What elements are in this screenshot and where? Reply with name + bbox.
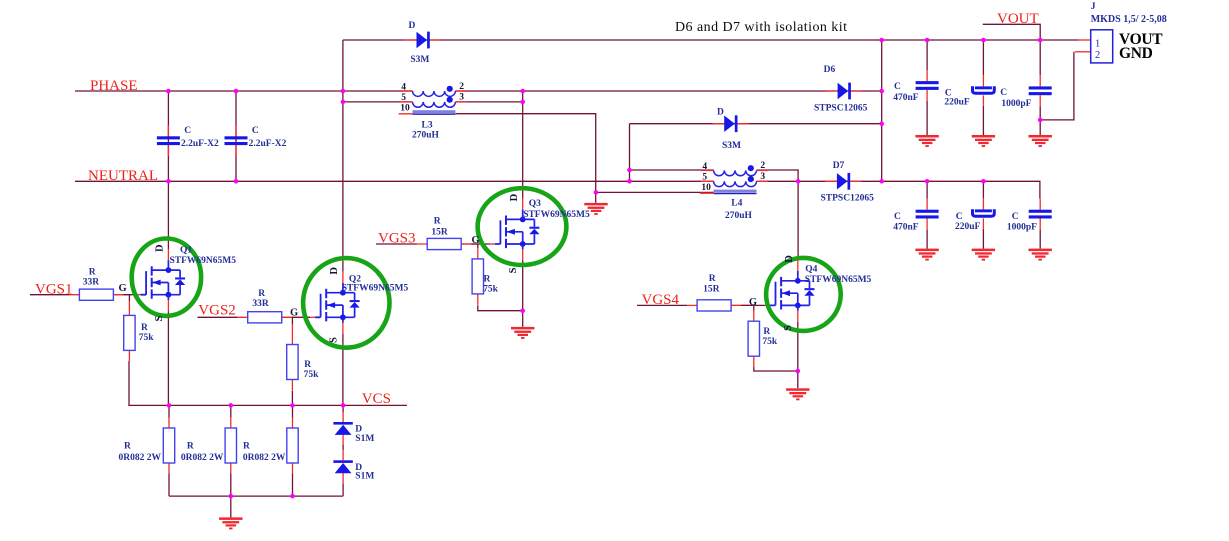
wire bottom ground stem [230,496,232,517]
svg-text:2.2uF-X2: 2.2uF-X2 [249,139,287,149]
annotation circle around Q2 [303,258,389,348]
wire X2 cap2 column [235,91,237,181]
svg-text:R: R [709,274,716,284]
junction bottom rail / ground [229,494,234,499]
wire VGS4 net stub [637,304,687,306]
wire Rs1 bottom lead [168,473,170,496]
wire Q4 gate pin [765,304,770,306]
svg-text:STFW69N65M5: STFW69N65M5 [805,275,872,285]
resistor R 0R082 2W #3 [243,417,298,474]
svg-text:G: G [290,308,298,319]
svg-text:J: J [1091,2,1096,12]
svg-text:STFW69N65M5: STFW69N65M5 [523,210,590,220]
junction VCS / Rs2 [229,403,234,408]
resistor R 33R (Q1 gate) [69,267,123,300]
wire L3 pin10 row to ground node [456,114,596,203]
svg-text:R: R [434,216,441,226]
svg-text:VGS2: VGS2 [198,303,236,319]
svg-text:Q4: Q4 [805,265,817,275]
wire Q4 source to ground node [797,322,799,389]
svg-text:75k: 75k [139,333,155,343]
wire VGS3 net stub [376,243,417,245]
svg-text:S: S [154,316,165,322]
svg-text:VGS4: VGS4 [642,292,680,308]
svg-text:GND: GND [1119,45,1153,62]
junction VCS / R75k2 [290,403,295,408]
svg-text:C: C [252,126,259,136]
wire VOUT top bus [343,39,1079,41]
svg-text:D: D [509,193,520,201]
wire R75k4 bottom link [754,367,798,371]
svg-text:G: G [119,283,127,294]
svg-text:33R: 33R [83,277,100,287]
svg-text:C: C [894,212,901,222]
ground earth Q4 source [786,388,809,400]
capacitor C 2.2uF-X2 #2 [225,125,287,156]
wire R75k2 top link a [291,317,293,324]
ground earth C220uF-1 [972,135,995,147]
junction D6 out / VOUT join [879,89,884,94]
wire Q2 drain vertical [342,91,344,272]
wire VOUT join vertical [881,40,883,181]
svg-text:2: 2 [1095,50,1100,61]
svg-text:C: C [184,126,191,136]
wire Q1 source to VCS [167,311,169,405]
net label VGS1 [35,281,73,297]
wire R75k4 top link [753,305,755,311]
svg-text:470nF: 470nF [893,223,919,233]
diode D7 STPSC12065 [821,161,875,203]
resistor R 15R (Q4 gate) [687,274,741,311]
svg-text:S: S [508,267,519,273]
inductor L4 270uH [700,161,768,221]
diode D6 STPSC12065 [814,65,868,113]
wire Q1 gate pin [136,294,141,296]
svg-text:270uH: 270uH [412,131,440,141]
wire R75k3 top link [477,244,479,248]
resistor R 15R (Q3 gate) [417,216,471,249]
svg-text:S: S [783,325,794,331]
wire L4 pin2 to Q4 drain [757,170,799,260]
svg-text:R: R [258,289,265,299]
wire C1000pF-2 leads [1039,230,1041,249]
junction VCS / Q1 source [167,403,172,408]
resistor R 0R082 2W #2 [181,417,237,474]
net label VGS2 [198,303,236,319]
wire PHASE bus [75,90,882,92]
svg-text:0R082 2W: 0R082 2W [119,453,162,463]
svg-text:220uF: 220uF [944,98,970,108]
wire Rs3 bottom lead [292,473,294,496]
svg-text:75k: 75k [483,284,499,294]
wire Rs1 top lead [168,405,170,417]
svg-text:C: C [894,82,901,92]
wire L4 pin4 feed [630,169,714,171]
svg-text:D6: D6 [824,65,836,75]
svg-text:C: C [1012,212,1019,222]
junction rail / C470nF-2 [925,179,930,184]
svg-text:S: S [328,337,339,343]
junction bottom rail / Rs3 [290,494,295,499]
svg-text:VCS: VCS [362,391,391,407]
capacitor C 1000pF #1 [1000,75,1051,109]
capacitor C 470nF #2 [893,199,938,233]
diode D S1M lower [333,450,374,483]
annotation circle around Q3 [478,188,567,265]
svg-text:STPSC12065: STPSC12065 [821,194,875,204]
diode D S1M upper [333,412,374,445]
svg-text:470nF: 470nF [893,93,919,103]
net label VGS4 [642,292,680,308]
wire R2 to Q2 gate b [292,316,310,318]
annotation circle around Q1 [132,239,201,316]
svg-text:S3M: S3M [722,141,741,151]
ground earth C470nF-2 [915,249,938,261]
wire R4 to Q4 gate b [741,304,765,306]
svg-text:STFW69N65M5: STFW69N65M5 [170,256,237,266]
capacitor C 470nF #1 [893,70,938,103]
svg-text:0R082 2W: 0R082 2W [181,453,224,463]
title note [675,20,847,35]
junction gnd net / C1000pF-1 [1038,118,1043,123]
junction NEUTRAL / S3M2 branch [627,179,632,184]
wire R3 to Q3 gate a [461,243,479,245]
wire R1 to Q1 gate b [123,294,135,296]
svg-text:L4: L4 [731,199,742,209]
transistor Q4 STFW69N65M5 [749,255,872,331]
junction VCS / Q2 source S1M [341,403,346,408]
net label VOUT [997,11,1039,27]
wire R75k2 bottom to VCS [291,391,293,406]
svg-text:0R082 2W: 0R082 2W [243,453,286,463]
net label VCS [362,391,391,407]
wire R75k3 bottom link [478,305,523,310]
wire VGS2 net stub [198,316,238,318]
junction S3M2 / VOUT join [879,121,884,126]
svg-text:VGS3: VGS3 [378,231,416,247]
wire C470nF-2 leads [926,181,928,248]
svg-text:G: G [472,235,480,246]
wire VCS rail [129,361,407,406]
svg-text:D: D [784,255,795,263]
svg-text:1000pF: 1000pF [1007,223,1037,233]
wire Q3 gate pin [490,243,495,245]
capacitor C 1000pF #2 [1007,199,1052,233]
junction PHASE / X2 cap1 [166,89,171,94]
junction top bus / C1000pF-1 VOUT label [1038,38,1043,43]
svg-text:R: R [124,442,131,452]
wire R75k1 top link b [128,301,130,305]
wire S3M2 row [630,123,882,125]
svg-text:D7: D7 [833,161,845,171]
svg-text:75k: 75k [304,370,320,380]
ground earth sense rail [219,517,242,529]
junction rail / C220uF-2 [981,179,986,184]
svg-text:R: R [763,327,770,337]
wire S1M stack bottom lead [342,483,344,496]
svg-text:C: C [1000,88,1007,98]
svg-text:Q3: Q3 [529,199,541,209]
wire Q3 drain vertical [522,91,524,198]
resistor R 75k (Q3) [472,248,499,305]
junction top bus / VOUT join [879,38,884,43]
wire Q1 drain vertical [167,91,169,249]
wire connector pin2 to ground net [1040,52,1074,120]
svg-text:NEUTRAL: NEUTRAL [88,168,158,184]
junction Q4 source ground node [796,369,801,374]
transistor Q1 STFW69N65M5 [119,244,237,322]
wire S1M stack top lead [342,405,344,412]
wire NEUTRAL bus and D7 output rail [75,181,1040,198]
junction aux winding ground node [594,190,599,195]
annotation circle around Q4 [766,258,841,331]
ground earth C220uF-2 [972,249,995,261]
svg-text:15R: 15R [703,285,720,295]
junction NEUTRAL / X2 cap2 [234,179,239,184]
svg-text:1000pF: 1000pF [1001,99,1031,109]
svg-text:D: D [155,244,166,252]
wire C1000pF-1 leads [1039,40,1041,135]
wire sense bottom rail [169,495,343,497]
junction NEUTRAL / X2 cap1 [166,179,171,184]
resistor R 75k (Q2) [287,334,319,391]
junction row2 / Q3 drain [520,100,525,105]
svg-text:VGS1: VGS1 [35,281,73,297]
svg-text:270uH: 270uH [725,211,753,221]
net label PHASE [90,78,138,94]
wire top S3M branch vertical [342,40,344,91]
wire S1M stack middle link [342,445,344,450]
junction top bus / C220uF-1 [981,38,986,43]
svg-text:D: D [717,107,724,117]
svg-text:Q1: Q1 [180,246,192,256]
svg-text:R: R [243,442,250,452]
wire Q2 gate pin [310,316,315,318]
junction D7 line / Q4 drain [796,179,801,184]
wire Rs2 top lead [230,405,232,417]
transistor Q2 STFW69N65M5 [290,267,408,343]
svg-text:220uF: 220uF [955,222,981,232]
wire S3M2 branch vertical [629,124,631,182]
svg-text:75k: 75k [762,337,778,347]
connector J MKDS 1,5/ 2-5,08 [1091,2,1167,63]
wire Rs3 top lead [292,405,294,417]
wire R3 to Q3 gate b [471,243,490,245]
svg-text:VOUT: VOUT [997,11,1039,27]
junction L3 out row1 / Q3 drain [520,89,525,94]
svg-text:PHASE: PHASE [90,78,138,94]
resistor R 0R082 2W #1 [119,417,175,474]
junction PHASE / Q2 drain branch [341,89,346,94]
ground earth Q3 source [511,327,534,339]
svg-text:L3: L3 [422,121,433,131]
wire R75k1 top link a [128,295,130,301]
svg-text:R: R [187,442,194,452]
svg-text:G: G [749,297,757,308]
capacitor C 220uF #2 [955,198,994,232]
capacitor C 2.2uF-X2 #1 [157,125,219,156]
svg-text:2.2uF-X2: 2.2uF-X2 [181,139,219,149]
capacitor C 220uF #1 [944,75,994,108]
wire R4 to Q4 gate a [731,304,755,306]
wire connector pin2 lead [1075,51,1091,53]
svg-text:D6 and D7 with isolation kit: D6 and D7 with isolation kit [675,20,847,35]
junction Q3 source ground node [520,308,525,313]
wire R2 to Q2 gate a [282,316,294,318]
wire C220uF-2 leads [982,181,984,248]
net label VGS3 [378,231,416,247]
junction L4 pin4 tap [627,168,632,173]
wire VOUT net label stub [983,24,1040,40]
svg-text:MKDS 1,5/ 2-5,08: MKDS 1,5/ 2-5,08 [1091,14,1167,25]
wire connector pin1 lead [1079,39,1091,41]
diode D S3M second [713,107,749,151]
svg-text:STFW69N65M5: STFW69N65M5 [342,284,409,294]
ground earth C1000pF-1 [1029,135,1052,147]
wire C220uF-1 leads [982,40,984,135]
wire Rs2 bottom lead [230,473,232,496]
wire aux ground link to L4 pin10 [596,191,714,193]
svg-text:15R: 15R [431,228,448,238]
wire Q2 source to VCS [342,334,344,406]
wire R1 to Q1 gate a [113,294,131,296]
junction rail / VOUT join [879,179,884,184]
svg-text:R: R [141,323,148,333]
resistor R 33R (Q2 gate) [238,289,292,323]
junction PHASE / X2 cap2 [234,89,239,94]
junction row2 / Q2 branch [341,100,346,105]
ground earth C1000pF-2 [1029,249,1052,261]
wire R75k2 top link b [291,324,293,334]
wire L3 winding 5-3 row [343,101,523,103]
inductor L3 270uH [399,82,467,141]
svg-text:C: C [956,212,963,222]
junction top bus / C470nF-1 [925,38,930,43]
wire Q3 source to ground node [522,260,524,327]
svg-text:STPSC12065: STPSC12065 [814,103,868,113]
wire C470nF-1 leads [926,40,928,135]
svg-text:R: R [304,360,311,370]
net label NEUTRAL [88,168,158,184]
transistor Q3 STFW69N65M5 [472,193,590,273]
resistor R 75k (Q1) [124,304,155,361]
svg-text:R: R [89,267,96,277]
wire VGS1 net stub [30,294,70,296]
resistor R 75k (Q4) [748,310,778,367]
svg-text:R: R [484,275,491,285]
svg-text:D: D [409,21,416,31]
svg-text:D: D [329,267,340,275]
svg-text:S3M: S3M [410,55,429,65]
svg-text:33R: 33R [252,299,269,309]
ground earth C470nF-1 [915,135,938,147]
svg-text:S1M: S1M [355,434,374,444]
ground earth near L windings [584,203,607,215]
svg-text:S1M: S1M [355,472,374,482]
svg-text:1: 1 [1095,38,1100,49]
diode D S3M top [405,21,441,65]
